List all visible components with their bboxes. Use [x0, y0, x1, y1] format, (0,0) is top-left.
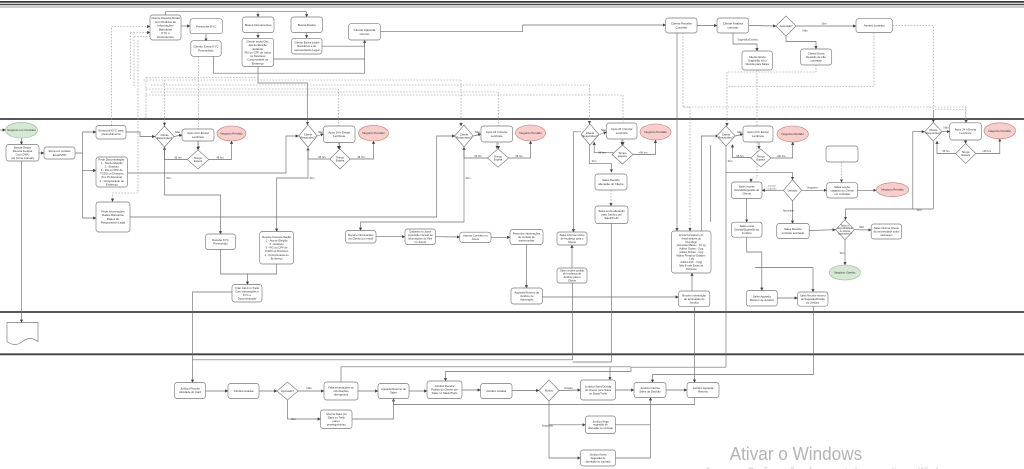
- wire Cadastro Jusus to Aprova Contrato: [436, 236, 460, 238]
- wire Cliente Respondeu 3 Sim to Recebe informacoes: [361, 147, 465, 231]
- svg-text:Não: Não: [802, 29, 808, 33]
- wire Sana Duvida to Juridico informa: [616, 389, 635, 391]
- wire loop into Respondeu 6: [913, 132, 925, 209]
- svg-text:Sim: Sim: [166, 176, 171, 180]
- message flow ladder 2: [144, 79, 462, 81]
- wire Recebe informacao down to Juridico Aguarda: [694, 307, 696, 383]
- wire Analisa contrato to Aprovado: [749, 25, 776, 28]
- task Sales envia alteracao Juridico: [595, 206, 628, 224]
- decision Aprovado juridico: [277, 382, 298, 400]
- svg-text:Dúvida/: Dúvida/: [768, 186, 776, 188]
- wire Sales recebe pedido down: [572, 283, 574, 360]
- decision Cliente Respondeu 1: [155, 126, 174, 147]
- svg-text:96 hrs: 96 hrs: [174, 155, 182, 159]
- svg-text:Sim: Sim: [840, 251, 845, 255]
- task Apos 24h Lembrete 1: [182, 129, 214, 141]
- wire collector up to Juridico informa: [650, 398, 652, 459]
- svg-text:Sugestão/Dúvida: Sugestão/Dúvida: [737, 37, 758, 41]
- decision Todos disponibilidade: [836, 220, 855, 240]
- task Buscar Dados Receita Federal: [6, 145, 39, 162]
- wire Cliente envia Doc down to Respondeu 2: [307, 83, 309, 125]
- wire Tempo Espera 1 to Negocio Perdido 1: [209, 141, 232, 160]
- message flow vertical a: [130, 33, 132, 81]
- wire Motivo down to Aceita sugestao: [549, 425, 581, 458]
- task Entra em contato Email VFP: [44, 147, 75, 159]
- wire top distribution from Recebe Email: [166, 12, 307, 15]
- decision Motivo: [539, 380, 559, 401]
- wire band connector 2: [631, 366, 726, 368]
- svg-text:sugestão: sugestão: [768, 187, 778, 190]
- svg-text:Sales AguardaRetorno de Jurídi: Sales AguardaRetorno de Jurídico: [750, 294, 774, 302]
- message flow drop to Lembrete 6: [965, 107, 967, 123]
- end Negocio Perdido 3: [516, 125, 546, 141]
- wire Juridico informa to Juridico Aguarda: [666, 389, 687, 391]
- wire Entra contato branch up to Envia pdf: [75, 132, 96, 153]
- svg-text:Recebe KYCPreenchido: Recebe KYCPreenchido: [212, 238, 228, 246]
- svg-text:Jurídico Analisa: Jurídico Analisa: [486, 389, 506, 393]
- task Juridico Analisa 2: [481, 384, 513, 399]
- wire Decisao to Sales recebe Duvida: [762, 189, 784, 191]
- message flow Recebe Contrato down to Envia Contrato: [683, 33, 690, 231]
- wire elbow into Sales Recebe retorno: [755, 268, 813, 293]
- svg-text:Não: Não: [306, 386, 312, 390]
- wire Preenche testemunhas to Aguarda Retorno: [526, 244, 528, 288]
- task Cliente Envia Decisao nao contratar: [801, 49, 832, 65]
- wire Cliente Respondeu 5 loop cluster: [736, 134, 744, 136]
- message flow drop to Tempo 4: [622, 95, 624, 145]
- wire Respondeu 4 left to Sales informa motivo: [573, 132, 580, 232]
- wire Entra contato branch to Pede Documentacao: [83, 170, 97, 172]
- lane divider Cliente-Sales: [0, 118, 1024, 120]
- svg-text:Negócio Perdido: Negócio Perdido: [644, 130, 667, 134]
- task Informa Sales prosseguimento: [321, 410, 353, 429]
- wire Sales Recebe retorno down to Juridico informa: [653, 306, 814, 382]
- document Contrato: [7, 323, 38, 345]
- wire Aguarda retorno to Recebe Contrato: [381, 25, 666, 32]
- end Negocio Perdido 2: [359, 125, 389, 141]
- wire Recebe informacoes to Cadastro Jusus: [376, 236, 405, 238]
- wire Tempo Espera 6 to Negocio Perdido 6: [976, 139, 1000, 154]
- message flow caixa vazia down: [841, 162, 843, 182]
- message flow drop to Tempo 2: [338, 89, 340, 149]
- task Cliente Envia dados Bancarios: [292, 38, 322, 54]
- svg-text:+96 hrs: +96 hrs: [777, 154, 787, 158]
- svg-text:Negativa: Negativa: [807, 185, 818, 189]
- wire Aguarda Retorno to Recebe informacao aprovacao: [543, 296, 679, 298]
- svg-text:Aprovado?: Aprovado?: [281, 389, 295, 393]
- task Assina contrato: [856, 19, 893, 33]
- task Cliente Recebe Contrato: [666, 18, 697, 33]
- task Sales informa Cliente assinarem: [871, 224, 902, 239]
- svg-text:Negócio Perdido: Negócio Perdido: [989, 129, 1012, 133]
- message flow to Recebe Email b: [134, 36, 150, 38]
- end Negocio Ganho: [829, 265, 860, 280]
- task Apos 24h Lembrete 6: [950, 123, 982, 140]
- task Envia Contrato DocuSign: [672, 231, 712, 273]
- svg-text:Acesse as Configurações do com: Acesse as Configurações do computador pa…: [705, 466, 956, 469]
- wire drop to Busca Documentos: [257, 12, 259, 17]
- svg-text:Cliente envia Doc:Ata de Eleiç: Cliente envia Doc:Ata de EleiçãoEstatuto…: [245, 39, 272, 65]
- decision Cliente Respondeu 3: [455, 125, 474, 147]
- task Sales envia Duvida Sugestao: [732, 222, 763, 237]
- wire Cliente Respondeu 1 Sim to Recebe KYC: [165, 147, 221, 234]
- wire Recebe Contrato to Envia Contrato: [676, 33, 678, 231]
- message flow Sugestao Duvida down to Sales recebe: [751, 70, 757, 182]
- wire Cliente Respondeu 5 Sim down: [725, 146, 727, 367]
- task Juridico Aguarda Retorno: [687, 383, 719, 398]
- task Recebe Documentacao: [260, 232, 294, 265]
- svg-text:Negócio Perdido: Negócio Perdido: [362, 131, 385, 135]
- message flow vertical c to Pede Informacoes: [113, 40, 139, 202]
- wire Aprovado Nao to Falta informacoes: [298, 390, 324, 392]
- task Pede Informacoes Dados Bancarios: [96, 202, 130, 232]
- wire Buscar Dados down to documento: [21, 161, 23, 323]
- task Cliente Envia KYC Preenchido: [191, 41, 221, 57]
- task Aguarda Retorno de Sales: [378, 384, 409, 399]
- wire Sales Recebe contrato to Todos disp: [809, 229, 835, 232]
- task Busca Documentos: [243, 17, 275, 33]
- message flow Envia pdf up: [112, 27, 151, 126]
- decision Cliente Respondeu 5: [717, 126, 736, 146]
- task Juridico informa Sales Decisao: [634, 383, 666, 398]
- svg-text:Sales Recebecontrato assinado: Sales Recebecontrato assinado: [782, 227, 805, 235]
- task Preenche KYC: [190, 19, 223, 34]
- wire Respondeu 6 Nao to Lembrete 6: [942, 131, 950, 133]
- task Cliente Aguarda retorno: [349, 24, 381, 40]
- message flow ladder 4: [146, 88, 339, 90]
- svg-text:Cliente Envia dadosBancários e: Cliente Envia dadosBancários e doreprese…: [294, 41, 320, 52]
- wire start to Buscar Dados: [21, 138, 23, 145]
- message flow ladder 6: [146, 94, 623, 96]
- task Sales Recebe alteracao Cliente: [595, 174, 627, 190]
- message flow Envia Decisao down: [727, 65, 816, 72]
- message flow to Recebe Email a: [131, 32, 151, 34]
- svg-text:Busca Dados: Busca Dados: [298, 23, 317, 27]
- svg-text:Recebe Documentação1 - Ata de: Recebe Documentação1 - Ata de Eleição2 -…: [262, 235, 291, 260]
- wire Aprovado Sim to Assina contrato: [796, 25, 856, 27]
- svg-text:Sugestão: Sugestão: [542, 424, 554, 428]
- wire Cliente Envia dados to Aguarda retorno: [322, 40, 365, 46]
- wire Preenche KYC to Envia KYC: [205, 34, 207, 42]
- task Aguarda Retorno Juridico Aprovacao: [511, 288, 543, 304]
- svg-text:Pede Documentação:1 - Ata de E: Pede Documentação:1 - Ata de Eleição2 - …: [99, 158, 126, 187]
- wire Tempo Espera 3 to Negocio Perdido 3: [509, 141, 531, 158]
- wire Sales envia alteracao down: [611, 224, 613, 363]
- wire Sim horizontal to Todos disp: [846, 209, 934, 220]
- wire Cliente Respondeu 4 Nao to Lembrete 4: [600, 132, 607, 135]
- wire Falta informacoes to Aguarda Retorno Sales: [358, 390, 378, 392]
- message flow Assina contrato down: [727, 33, 874, 87]
- task Recebe informacao aprovacao: [679, 291, 710, 307]
- wire Buscar Dados to Entra em contato: [39, 152, 44, 154]
- svg-text:Negócio Ganho: Negócio Ganho: [834, 271, 855, 275]
- start Negocio em Contrato: [6, 122, 38, 138]
- end Negocio Perdido 5: [777, 126, 808, 142]
- message flow drop to Respondeu 4: [589, 85, 591, 124]
- task Sales Recebe retorno Sugestao: [798, 292, 829, 306]
- end Negocio Perdido 6: [984, 123, 1016, 139]
- message flow Sales Recebe alteracao gap: [610, 190, 612, 206]
- wire Juridico Aguarda loop to Aguarda Retorno Sales: [394, 398, 695, 405]
- wire band to Juridico Recebe Pedido: [446, 367, 632, 381]
- task Apos 24h Lembrete 4: [607, 123, 638, 139]
- svg-text:Envia pdf KYC parapreenchiment: Envia pdf KYC parapreenchimento: [99, 128, 124, 136]
- wire Todos disp Sim to Negocio Ganho: [844, 240, 846, 265]
- task Preenche info testemunhas: [510, 230, 543, 245]
- wire Tempo Espera 5 loop: [733, 145, 751, 158]
- wire Cliente envia Doc down: [258, 67, 308, 84]
- wire Informa Sales to Aguarda Retorno Sales: [352, 399, 394, 420]
- task Criar Card no Trello: [232, 285, 262, 303]
- wire Entra contato branch down to Pede Informacoes: [83, 153, 97, 218]
- task Sales recebe Duvida Sugestao: [732, 182, 763, 199]
- wire Cliente Respondeu 2 Sim to Recebe Documentacao: [277, 148, 308, 232]
- task Cliente Envia Sugestao Duvida: [742, 51, 773, 70]
- wire Envia Contrato loop to Respondeu 5: [701, 136, 718, 231]
- wire Decisao Negativa to Sales recebe negativa: [802, 189, 827, 191]
- wire Recebe Email to Preenche KYC: [181, 25, 190, 27]
- lane divider Documento-Juridico: [0, 353, 1024, 355]
- wire Lembrete 6 to Tempo Espera 6: [965, 140, 967, 144]
- svg-text:Dúvida: Dúvida: [564, 386, 573, 390]
- svg-text:48 hrs: 48 hrs: [357, 155, 365, 159]
- wire Lembrete 5 to Tempo Espera 5: [758, 142, 760, 149]
- end Negocio Perdido 4: [640, 124, 671, 140]
- svg-text:Aprovado: Aprovado: [783, 209, 795, 213]
- wire Cliente Respondeu 3 Nao to Lembrete 3: [474, 134, 482, 136]
- svg-text:TempoEspera: TempoEspera: [194, 156, 203, 163]
- wire drop to Sana Duvida: [609, 367, 611, 380]
- task Apos 24h Lembrete 3: [481, 126, 513, 142]
- svg-text:Pede InformaçõesDados Bancário: Pede InformaçõesDados BancáriosDados doR…: [101, 210, 126, 225]
- decision Tempo Espera 5: [751, 149, 771, 167]
- decision Tempo Espera 4: [612, 145, 633, 164]
- task Recebe KYC Preenchido: [206, 234, 236, 250]
- decision Tempo Espera 1: [187, 150, 209, 169]
- message flow drop to Respondeu 3: [460, 80, 462, 126]
- task Cliente Recebe Email KYC: [150, 15, 181, 40]
- wire Pede Documentacao to Cliente Respondeu 2: [128, 136, 299, 173]
- task Juridico Recebe Atividade Card: [175, 383, 206, 399]
- svg-text:Sim: Sim: [310, 176, 315, 180]
- svg-text:Não: Não: [318, 130, 324, 134]
- wire Cliente Respondeu 2 Nao to Lembrete 2: [317, 134, 324, 136]
- wire Tempo Espera 3 loop: [464, 147, 488, 158]
- svg-text:96 hrs: 96 hrs: [474, 154, 482, 158]
- svg-text:Decisão: Decisão: [788, 188, 798, 192]
- svg-text:Sim: Sim: [917, 208, 922, 212]
- wire Juridico Analisa to Aprovado: [259, 390, 277, 392]
- wire Aceita sugestao to collector: [616, 457, 651, 459]
- wire Tempo Espera 2 loop: [308, 148, 330, 160]
- task Juridico Sana Duvida: [581, 380, 616, 400]
- svg-text:Não: Não: [175, 130, 181, 134]
- task Cadastro no Jusus: [405, 229, 436, 245]
- task Sales informa motivo mudanca: [557, 232, 587, 245]
- wire Busca Documentos to Cliente envia Doc: [257, 33, 259, 39]
- wire drop to Busca Dados: [306, 12, 308, 17]
- end Negocio Perdido 1: [217, 126, 246, 141]
- task Aprova Contrato no Jusus: [460, 232, 491, 242]
- wire long horizontal juridico band 1: [193, 359, 573, 361]
- svg-text:Motivo: Motivo: [545, 388, 553, 392]
- message flow ladder 7: [683, 106, 966, 108]
- end Negocio Perdido 7: [876, 183, 908, 197]
- svg-text:Jurídico Analisa: Jurídico Analisa: [234, 389, 254, 393]
- svg-text:Não: Não: [601, 128, 607, 132]
- decision Decisao: [783, 180, 801, 201]
- wire into start ellipse: [0, 129, 6, 131]
- svg-text:Sim: Sim: [291, 417, 296, 421]
- svg-text:Aprovado?: Aprovado?: [780, 24, 794, 28]
- svg-text:Jurídico RecebeAtividade do Ca: Jurídico RecebeAtividade do Card: [179, 387, 201, 395]
- wire Tempo Espera 5 to Negocio Perdido 5: [771, 142, 793, 158]
- svg-text:Preenche KYC: Preenche KYC: [196, 24, 217, 28]
- wire Recebe KYC to Criar Card: [221, 250, 248, 285]
- wire Cliente envia Doc to Aguarda retorno: [274, 58, 365, 60]
- pool top inner border: [0, 4, 1024, 6]
- wire Aprovado Sim to Informa Sales: [288, 400, 321, 419]
- wire Juridico Recebe Pedido to Analisa 2: [462, 389, 481, 391]
- wire Tempo Espera 6 loop: [937, 141, 956, 154]
- svg-text:Assina contrato: Assina contrato: [864, 24, 885, 28]
- wire Lembrete 4 to Tempo Espera 4: [621, 139, 623, 145]
- svg-text:48 hrs: 48 hrs: [216, 155, 224, 159]
- svg-text:96 hrs: 96 hrs: [942, 149, 950, 153]
- svg-text:Negócio em Contrato: Negócio em Contrato: [7, 128, 36, 132]
- decision Tempo Espera 3: [488, 149, 509, 168]
- wire Lembrete 3 to Tempo Espera 3: [496, 142, 498, 149]
- wire Lembrete 2 to Tempo Espera 2: [339, 143, 341, 150]
- task Busca Dados: [291, 17, 323, 33]
- lane divider Sales-Documento: [0, 311, 1024, 313]
- wire band connector: [573, 361, 612, 363]
- svg-text:96 hrs: 96 hrs: [736, 154, 744, 158]
- task Sales Aguarda Retorno Juridico: [746, 291, 777, 307]
- wire Sales Aguarda to Sales Recebe retorno: [777, 297, 797, 299]
- wire Decisao Aprovado to Sales Recebe contrato: [792, 201, 794, 224]
- wire Motivo Sugestao to Nega sugestao: [549, 401, 586, 425]
- svg-text:Informa Sales polSlack ou Trel: Informa Sales polSlack ou Trellopara opr…: [326, 412, 347, 426]
- wire Respondeu 6 top feed: [932, 110, 934, 122]
- wire Cliente Envia KYC to Aguarda retorno: [213, 40, 364, 73]
- task Cliente Analisa contrato: [717, 18, 749, 33]
- task Sales recebe negativa: [827, 183, 858, 198]
- svg-text:Não: Não: [737, 130, 743, 134]
- message flow ladder 3: [151, 84, 590, 86]
- svg-text:Negócio Perdido: Negócio Perdido: [519, 131, 542, 135]
- message flow drop to Respondeu 1: [164, 80, 166, 126]
- task Cliente envia Doc: [242, 38, 274, 66]
- wire Sales recebe negativa to Negocio Perdido 7: [858, 189, 877, 191]
- task caixa vazia: [826, 146, 858, 162]
- wire Recebe informacao to Envia Contrato: [691, 273, 693, 291]
- svg-text:Ativar o Windows: Ativar o Windows: [730, 443, 863, 464]
- decision Cliente Respondeu 4: [581, 124, 599, 145]
- svg-text:96 hrs: 96 hrs: [318, 155, 326, 159]
- svg-text:Recebe informaçõesdo Cliente p: Recebe informaçõesdo Cliente por email: [348, 233, 374, 241]
- wire Aguarda Retorno Sales to Juridico Recebe Pedido: [409, 390, 427, 392]
- svg-text:TempoEspera: TempoEspera: [618, 151, 627, 158]
- svg-text:Jurídico RecebePedido do Clien: Jurídico RecebePedido do Cliente porSale…: [431, 384, 458, 395]
- task Recebe informacoes Cliente email: [346, 231, 377, 244]
- decision Tempo Espera 6: [956, 144, 976, 164]
- task Sales recebe pedido mudanca: [557, 268, 587, 283]
- wire Falta informacoes loop up: [341, 367, 631, 382]
- wire Criar Card to Juridico Recebe Atividade: [193, 292, 233, 383]
- wire Nega sugestao to collector: [616, 424, 651, 426]
- task Sales Recebe contrato assinado: [777, 224, 810, 239]
- wire Respondeu 5 Sim to Decisao: [726, 172, 793, 179]
- wire Envia pdf to Cliente Respondeu 1: [126, 132, 155, 137]
- wire Cliente Respondeu 1 Nao to Lembrete 1: [174, 135, 182, 137]
- wire Todos disp Nao to Sales informa Cliente: [854, 229, 871, 231]
- svg-text:Sim: Sim: [592, 159, 597, 163]
- message flow ladder 5: [151, 91, 499, 93]
- message flow Envia KYC down to Tempo 1: [198, 56, 200, 149]
- svg-text:TempoEspera: TempoEspera: [336, 155, 345, 162]
- message flow drop to Tempo 3: [498, 92, 500, 149]
- message flow ladder 1: [146, 77, 258, 79]
- svg-text:Não: Não: [943, 126, 949, 130]
- wire col b down: [710, 145, 712, 222]
- svg-text:TempoEspera: TempoEspera: [757, 154, 766, 161]
- wire Aprovado Nao to Envia Decisao: [786, 36, 816, 49]
- svg-text:Sim: Sim: [728, 159, 733, 163]
- task Apos 24h Lembrete 5: [743, 126, 773, 142]
- svg-text:Jurídico informaSales da Decis: Jurídico informaSales da Decisão: [639, 386, 661, 394]
- task Juridico Analisa 1: [228, 384, 259, 399]
- lane top edge: [0, 6, 1024, 8]
- pool top border: [0, 1, 1024, 3]
- decision Cliente Respondeu 2: [299, 125, 318, 148]
- svg-text:Negócio Perdido: Negócio Perdido: [781, 132, 804, 136]
- wire Tempo Espera 1 loop to Cliente Respondeu 1: [165, 147, 188, 160]
- svg-text:Criar Card no TrelloCom inform: Criar Card no TrelloCom informações eKYC…: [235, 286, 259, 301]
- wire Respondeu 6 Sim down: [932, 141, 934, 209]
- wire Cliente Respondeu 4 Sim to Sales Recebe alteracao: [589, 142, 611, 172]
- task Pede Documentacao: [96, 157, 128, 187]
- svg-text:Negócio Perdido: Negócio Perdido: [881, 188, 904, 192]
- wire Recebe Documentacao to Criar Card: [248, 264, 277, 274]
- wire Tempo Espera 4 loop: [594, 142, 613, 153]
- svg-text:Não: Não: [859, 225, 864, 229]
- wire Lembrete 1 to Tempo Espera 1: [197, 141, 199, 150]
- wire Pede Informacoes to Cliente Respondeu 3: [130, 136, 455, 217]
- svg-text:TempoEspera: TempoEspera: [961, 150, 970, 157]
- task Juridico Aceita sugestao: [581, 450, 616, 466]
- wire Analisa to Cliente Envia Sugestao: [733, 33, 757, 51]
- wire Sales envia to Sales Aguarda: [747, 237, 762, 290]
- message flow vertical x146: [145, 78, 147, 120]
- svg-text:+96 hrs: +96 hrs: [639, 150, 649, 154]
- wire Motivo Duvida to Sana Duvida: [559, 389, 581, 392]
- decision Aprovado cliente: [776, 16, 796, 36]
- message flow Assina to Respondeu 6: [893, 26, 966, 123]
- wire Tempo Espera 4 to Negocio Perdido 4: [633, 140, 656, 155]
- svg-text:TempoEspera: TempoEspera: [494, 154, 503, 161]
- message flow vertical b: [133, 37, 135, 87]
- decision Tempo Espera 2: [330, 149, 350, 169]
- wire Recebe Contrato to Analisa contrato: [697, 25, 717, 27]
- wire Juridico Recebe Atividade to Analisa: [206, 390, 229, 392]
- task Falta informacoes divergentes: [324, 382, 358, 400]
- task Juridico Recebe Pedido Cliente: [427, 381, 462, 399]
- svg-text:Buscar DadosReceita FederalCom: Buscar DadosReceita FederalCom CNPJ(de f…: [11, 145, 34, 160]
- svg-text:+96 hrs: +96 hrs: [982, 149, 992, 153]
- wire Sales recebe Duvida to Sales envia: [746, 199, 748, 223]
- task Apos 24h Lembrete 2: [324, 126, 356, 143]
